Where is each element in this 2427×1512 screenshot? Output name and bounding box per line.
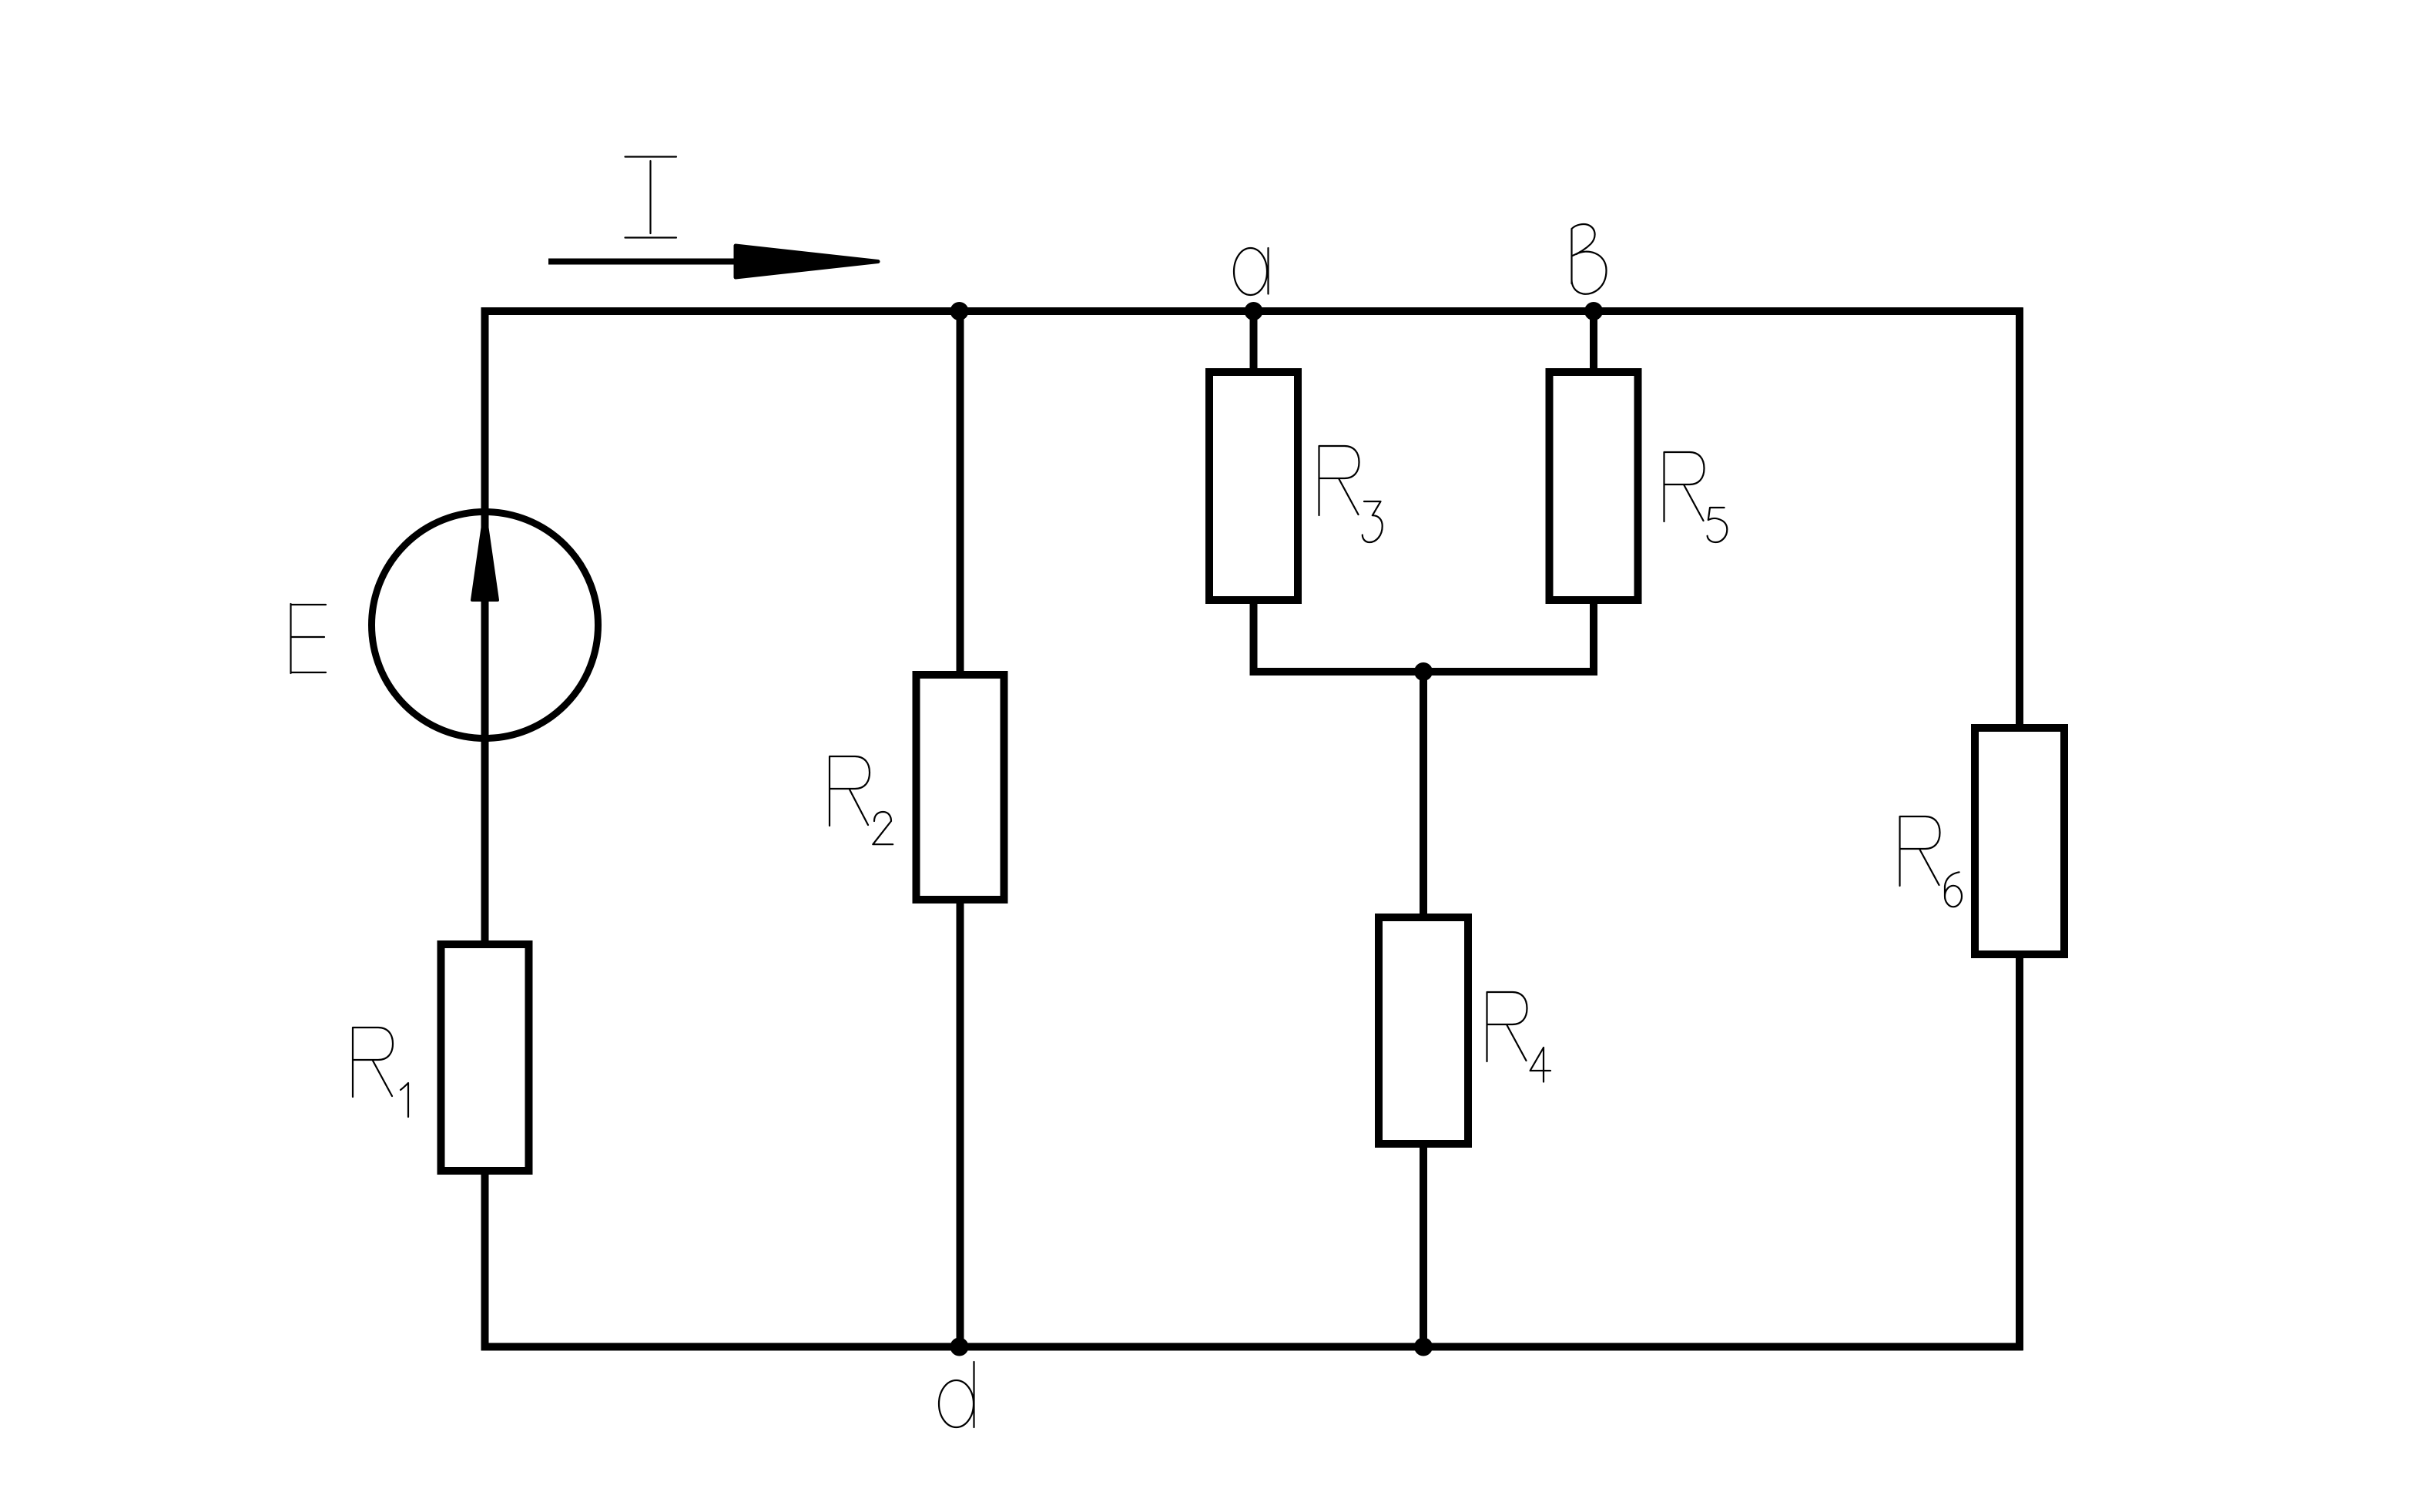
wire connector under R3 and R5	[1250, 668, 1598, 676]
label R5	[1664, 452, 1705, 521]
label I	[625, 157, 677, 238]
wire top bus from left corner to right corner	[481, 307, 2023, 315]
label node b	[1572, 224, 1607, 294]
junction node a	[1245, 302, 1263, 320]
wire right branch with R6	[2016, 307, 2023, 1350]
resistor R1	[441, 944, 529, 1171]
label R4	[1487, 992, 1527, 1061]
junction node at R2 top	[950, 302, 969, 320]
wire R4 branch down to bottom bus	[1420, 672, 1427, 1347]
resistor R3	[1209, 372, 1298, 600]
wire bottom bus from left corner to right corner	[481, 1343, 2023, 1351]
resistor R5	[1550, 372, 1638, 600]
label R2	[830, 756, 870, 826]
junction node at R4 bottom	[1414, 1338, 1433, 1356]
label R3	[1319, 446, 1359, 515]
wire node a down to R3	[1250, 311, 1258, 672]
junction node b	[1584, 302, 1603, 320]
label R6	[1900, 816, 1940, 886]
source E circle	[372, 512, 598, 739]
wire left branch with E and R1	[481, 307, 489, 1350]
label node a	[1234, 248, 1269, 295]
label R1	[353, 1028, 393, 1097]
junction node under R3/R5 connector	[1414, 662, 1433, 681]
junction node d on bottom bus	[950, 1338, 969, 1356]
label node d	[939, 1362, 974, 1427]
wire R2 branch	[957, 311, 964, 1347]
current arrow I	[548, 246, 878, 277]
resistor R4	[1379, 917, 1468, 1144]
wire node b down to R5	[1590, 311, 1597, 672]
source E arrow	[472, 511, 498, 600]
resistor R6	[1975, 728, 2064, 954]
label E	[291, 604, 327, 673]
resistor R2	[917, 675, 1004, 900]
